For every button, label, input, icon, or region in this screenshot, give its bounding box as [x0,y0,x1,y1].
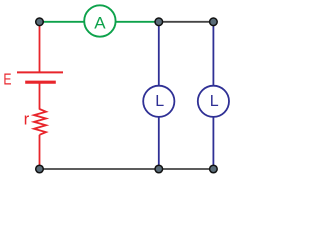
svg-text:r: r [24,110,30,129]
ammeter A [84,5,115,36]
wire left red lower (resistor to node D) [39,135,41,169]
node A top-left junction [36,18,44,26]
wire left red upper (node A to battery) [39,22,41,72]
wire bottom gray (node D to node F) [40,168,214,170]
wire top-mid green (ammeter to node B) [116,21,159,23]
node B top-mid junction [155,18,163,26]
wire top-right gray (node B to node C) [159,21,214,23]
svg-text:L: L [155,93,164,110]
node E2 bottom-mid junction [155,165,163,173]
battery E plates [17,72,63,82]
resistor r zigzag [34,109,46,135]
svg-text:E: E [3,71,11,89]
node D bottom-left junction [36,165,44,173]
wire mid navy lower (lamp L1 to node E) [158,117,160,169]
wire left red middle (battery to resistor) [39,82,41,109]
node C top-right junction [210,18,218,26]
wire mid navy upper (node B to lamp L1) [158,22,160,86]
wire right navy lower (lamp L2 to node F) [212,117,214,169]
wire right navy upper (node C to lamp L2) [212,22,214,86]
svg-text:L: L [210,93,219,110]
lamp L1 [143,86,174,117]
wire top-left green (node A to ammeter) [40,21,85,23]
svg-text:A: A [94,14,106,33]
node F bottom-right junction [210,165,218,173]
lamp L2 [198,86,229,117]
